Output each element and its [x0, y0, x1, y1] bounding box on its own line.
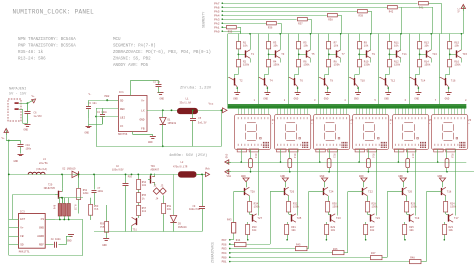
resistor R23	[443, 225, 447, 235]
wire T22 collector to R	[367, 196, 369, 202]
capacitor C9	[202, 174, 204, 206]
resistor R53	[90, 198, 92, 205]
resistor R55	[138, 190, 140, 194]
wires tube Z4 top pins	[356, 108, 358, 114]
hatched symbol tube Z1	[263, 142, 269, 148]
wire segment bus PA7	[222, 3, 417, 5]
svg-text:ZHASNI: SS, PB2: ZHASNI: SS, PB2	[113, 58, 151, 62]
resistor R25	[403, 225, 407, 235]
wire VCC to rail	[463, 11, 465, 34]
svg-text:SD: SD	[20, 244, 24, 247]
wire base node to T7	[329, 54, 336, 56]
pin numbers tube Z1 bottom	[238, 144, 239, 146]
svg-text:T20: T20	[407, 191, 412, 194]
diode D1	[162, 110, 164, 117]
resistor R27	[364, 225, 368, 235]
wire C1 to ground	[158, 87, 160, 93]
capacitor C1	[130, 80, 132, 95]
resistor R26	[405, 202, 409, 213]
transistor T8	[324, 78, 326, 85]
svg-text:MAX756: MAX756	[118, 133, 128, 136]
svg-text:T26: T26	[290, 191, 295, 194]
wire T26 collector to R	[288, 196, 290, 202]
svg-text:10k: 10k	[243, 44, 248, 48]
wire ground to T emitter column 4	[363, 182, 365, 187]
wire R24 to T17	[445, 212, 447, 214]
wire R41 to drop	[428, 3, 441, 5]
svg-text:C3 10n: C3 10n	[88, 102, 97, 105]
ground column 1	[234, 92, 240, 94]
resistor R52	[78, 174, 80, 188]
seven segment digit tube Z5	[404, 122, 413, 124]
resistor R7	[327, 42, 331, 49]
inductor L1	[178, 108, 198, 113]
wire R26 to T19	[406, 212, 408, 214]
wire segment output 5 to bus	[348, 34, 350, 105]
connector X1 power input	[8, 99, 21, 121]
wire riser digit 2	[270, 192, 272, 245]
svg-text:PA1: PA1	[214, 26, 220, 29]
wire R46 to riser	[344, 252, 348, 254]
wire T29 source to sense resistors	[62, 201, 64, 204]
transistor T13	[426, 50, 428, 57]
svg-text:T15: T15	[462, 53, 467, 56]
svg-text:10k: 10k	[252, 229, 257, 232]
resistor R15 tube Z2	[289, 149, 291, 159]
svg-text:R15: R15	[332, 154, 335, 159]
wire PB3 to R45	[230, 248, 296, 250]
svg-text:PB2: PB2	[105, 95, 110, 98]
svg-text:AGND: AGND	[37, 235, 44, 238]
wire base T22	[348, 191, 363, 193]
svg-text:T5: T5	[311, 53, 315, 56]
svg-text:GND: GND	[148, 141, 153, 144]
svg-text:NAPAJENI: NAPAJENI	[9, 88, 26, 92]
svg-text:T31: T31	[133, 229, 138, 232]
wire T29 gate to IC3	[12, 194, 55, 196]
wire column 5 rail to R9	[359, 34, 361, 42]
transistor T17	[448, 214, 450, 221]
wire segment bus PA5	[222, 11, 357, 13]
wire segment bus PA6	[222, 7, 387, 9]
wire base node to T15	[450, 54, 457, 56]
svg-text:GND: GND	[280, 175, 285, 178]
svg-text:10k: 10k	[334, 44, 339, 48]
svg-text:T18: T18	[447, 191, 452, 194]
svg-text:R16: R16	[372, 154, 375, 159]
svg-text:R42: R42	[389, 11, 394, 14]
wire column 2 rail to R3	[268, 34, 270, 42]
wire R3 to base node	[268, 49, 270, 60]
tube Z6 bottom pads	[434, 149, 444, 152]
ground net arrow left	[227, 162, 232, 164]
pin numbers tube Z5 top	[395, 117, 396, 119]
svg-text:R37: R37	[298, 23, 303, 26]
svg-text:MAX1771: MAX1771	[19, 251, 30, 254]
jumper J3	[160, 188, 167, 195]
resistor R28	[366, 202, 370, 213]
wire ground to T emitter column 2	[285, 182, 287, 187]
wire boost rail	[9, 174, 203, 176]
wire T25 to R31	[287, 222, 289, 225]
svg-text:0.22: 0.22	[74, 205, 77, 211]
wire tube Z2 pin to ground rail	[280, 149, 282, 162]
svg-text:10k: 10k	[303, 44, 308, 48]
wire R5 to base node	[298, 49, 300, 60]
svg-text:V+: V+	[20, 227, 24, 230]
wire IC1 feedback loop	[96, 108, 98, 146]
svg-text:T21: T21	[375, 217, 380, 220]
svg-text:NPN TRANZISTORY: BC546A: NPN TRANZISTORY: BC546A	[18, 38, 76, 42]
resistor R31	[285, 225, 289, 235]
wire R12 to T12 base	[389, 67, 391, 74]
wire T19 to R25	[404, 222, 406, 225]
svg-text:GND: GND	[160, 98, 165, 101]
resistor R58	[163, 195, 165, 203]
ground rail under tubes	[232, 162, 467, 164]
hatched symbol tube Z2	[302, 142, 308, 148]
wire T2 collector to segment net	[227, 77, 230, 79]
svg-text:2k2: 2k2	[142, 210, 147, 213]
ground R56	[103, 238, 109, 240]
wire T10 collector to segment net	[348, 77, 351, 79]
svg-text:150k: 150k	[254, 206, 261, 209]
wire R35 to drop	[237, 27, 241, 29]
svg-text:R47: R47	[371, 252, 376, 255]
resistor R8	[327, 60, 331, 67]
wire Vcc horizontal rail	[228, 33, 463, 35]
transistor T18	[441, 188, 443, 195]
svg-text:GND: GND	[263, 98, 268, 101]
wire base node to T13	[420, 54, 427, 56]
transistor T14	[415, 78, 417, 85]
wire T15 emitter to rail	[461, 34, 463, 50]
wire tube Z3 pin to ground rail	[319, 149, 321, 162]
power Vbb arrow output	[206, 172, 210, 176]
power VCC arrow output	[223, 108, 228, 113]
pin numbers tube Z1 top	[238, 117, 239, 119]
wire T7 collector down	[340, 58, 342, 62]
resistor R24	[444, 202, 448, 213]
tube Z5 bottom pads	[394, 149, 404, 152]
transistor T6	[294, 78, 296, 85]
wire R48 to riser	[421, 261, 426, 263]
svg-text:PA5: PA5	[214, 10, 220, 13]
svg-text:R46: R46	[333, 248, 338, 251]
wire T8 emitter to ground	[327, 87, 329, 93]
wire T21 to R27	[365, 222, 367, 225]
wire R23 down	[444, 235, 446, 240]
diode D3	[173, 174, 175, 215]
ground power input	[25, 124, 31, 126]
transistor T10	[354, 78, 356, 85]
wire T24 collector to R	[328, 196, 330, 202]
svg-text:150k: 150k	[364, 62, 371, 66]
svg-text:GND: GND	[398, 175, 403, 178]
wire tube Z5 cathode common down	[415, 149, 417, 216]
svg-text:10k: 10k	[370, 229, 375, 232]
transistor T25	[291, 214, 293, 221]
wire column 3 rail to R5	[298, 34, 300, 42]
transistor T2	[234, 78, 236, 85]
wire T18 collector to R	[445, 196, 447, 202]
wire R32 to T25	[288, 212, 290, 214]
svg-text:REF: REF	[120, 108, 125, 111]
svg-text:10k: 10k	[449, 229, 454, 232]
transistor T19	[409, 214, 411, 221]
svg-text:5V - 15V: 5V - 15V	[9, 93, 27, 97]
wire R28 to T21	[367, 212, 369, 214]
svg-text:C1 1u: C1 1u	[153, 80, 161, 83]
svg-text:T1: T1	[251, 53, 255, 56]
svg-text:SD: SD	[120, 100, 124, 103]
svg-text:ANODY AVR: PD5: ANODY AVR: PD5	[113, 64, 149, 68]
svg-text:LX: LX	[141, 110, 145, 113]
svg-text:1N5819: 1N5819	[178, 226, 187, 229]
svg-text:10k: 10k	[364, 44, 369, 48]
svg-text:100u/63V: 100u/63V	[112, 168, 124, 171]
wire T28 collector to R	[249, 196, 251, 202]
wire sense resistors bottom	[55, 219, 83, 221]
wire T15 collector down	[461, 58, 463, 62]
ground C10	[18, 154, 24, 156]
svg-text:100u/63V: 100u/63V	[189, 208, 201, 211]
svg-text:PG0: PG0	[128, 175, 133, 178]
wire drop R42 inner	[401, 7, 403, 34]
svg-text:GND: GND	[359, 175, 364, 178]
svg-text:GND: GND	[320, 175, 325, 178]
wire R11 to base node	[389, 49, 391, 60]
wire PB1 to R48	[230, 261, 410, 263]
transistor T21	[370, 214, 372, 221]
transistor T7	[336, 50, 338, 57]
resistor R6	[297, 60, 301, 67]
svg-text:10k: 10k	[424, 44, 429, 48]
transistor T3	[275, 50, 277, 57]
wire X1 pin2 down	[19, 109, 23, 111]
wire T12 collector to segment net	[378, 77, 381, 79]
wire R39 to drop	[368, 11, 372, 13]
wire segment bus PA4	[222, 15, 326, 17]
svg-text:T16: T16	[451, 79, 456, 82]
wire base T20	[387, 191, 402, 193]
wire R47 to riser	[382, 257, 387, 259]
svg-text:GND: GND	[102, 244, 107, 247]
resistor R39	[358, 10, 368, 13]
svg-text:PA0: PA0	[214, 30, 220, 33]
svg-text:470u/0.17R: 470u/0.17R	[173, 166, 188, 169]
transistor T12	[385, 78, 387, 85]
ground C3 C4	[88, 118, 90, 126]
resistor R41	[419, 2, 429, 5]
wire V+ down	[6, 135, 8, 141]
svg-text:150k: 150k	[450, 206, 457, 209]
resistor R10	[358, 60, 362, 67]
svg-text:SEGMENTY: PA(7-0): SEGMENTY: PA(7-0)	[113, 44, 156, 49]
wire R34 to T27	[249, 212, 251, 214]
wire R1 to base node	[238, 49, 240, 60]
wire drop R36	[281, 23, 283, 34]
seven segment digit tube Z2	[286, 122, 295, 124]
svg-text:GND: GND	[241, 175, 246, 178]
svg-text:GND: GND	[139, 119, 144, 122]
sense resistor R49	[58, 197, 83, 199]
svg-text:R18: R18	[450, 154, 453, 159]
resistor R23 tube Z6	[446, 149, 448, 159]
wire base T24	[309, 191, 324, 193]
wire ground to T emitter column 3	[324, 182, 326, 187]
wire R42 to drop	[398, 7, 433, 9]
wire base node to T5	[299, 54, 306, 56]
svg-text:L1: L1	[186, 98, 190, 101]
wire segment output 4 to bus	[318, 34, 320, 105]
wires tube Z1 top pins	[238, 108, 240, 114]
svg-text:R43: R43	[227, 219, 232, 222]
svg-text:R49: R49	[54, 204, 57, 209]
resistor R47	[371, 256, 383, 260]
svg-text:10k: 10k	[454, 44, 459, 48]
svg-text:GND: GND	[324, 98, 329, 101]
wire T6 collector to segment net	[287, 77, 290, 79]
wire LBI pin	[96, 116, 118, 118]
svg-text:PA7: PA7	[214, 2, 220, 5]
wire IC1 LX output	[147, 110, 178, 112]
wire R13 to base node	[419, 49, 421, 60]
wire R14 to T14 base	[419, 67, 421, 74]
wire V+ rail down to IC3	[8, 141, 10, 256]
svg-text:T10: T10	[360, 79, 365, 82]
wire T5 emitter to rail	[310, 34, 312, 50]
svg-text:GND: GND	[294, 98, 299, 101]
pin numbers tube Z3 top	[316, 117, 317, 119]
wires tube Z2 top pins	[277, 108, 279, 114]
transistor T26	[284, 188, 286, 195]
wire drop R37	[311, 19, 313, 34]
svg-text:IC3: IC3	[20, 210, 25, 213]
wire column 4 rail to R7	[328, 34, 330, 42]
transistor T24	[323, 188, 325, 195]
wire riser digit 3	[308, 192, 310, 249]
ground column 7	[415, 92, 421, 94]
capacitor C5	[192, 110, 194, 118]
power V+ arrow	[28, 100, 34, 103]
svg-text:PB1: PB1	[222, 261, 227, 264]
svg-text:GND: GND	[39, 227, 44, 230]
numitron tube Z4	[353, 115, 389, 150]
wire riser digit 5	[387, 192, 389, 258]
svg-text:PB3: PB3	[222, 248, 227, 251]
svg-text:IRLR2705: IRLR2705	[44, 187, 56, 190]
ground column 8	[446, 92, 452, 94]
wire PD7 line	[230, 239, 234, 241]
wire tube Z5 pin to ground rail	[398, 149, 400, 162]
wire PB2 to IC1	[107, 100, 118, 102]
svg-text:100n: 100n	[98, 190, 104, 193]
wire T16 collector to segment net	[438, 77, 441, 79]
wire T3 emitter to rail	[280, 34, 282, 50]
ground column 4	[325, 92, 331, 94]
svg-text:T17: T17	[454, 217, 459, 220]
wire R29 down	[326, 235, 328, 240]
resistor R44	[235, 243, 247, 247]
transistor T1	[245, 50, 247, 57]
wire base T28	[234, 191, 245, 193]
power VCC arrow top right	[463, 7, 465, 12]
wire R36 to drop	[277, 23, 281, 25]
svg-text:R13: R13	[254, 154, 257, 159]
svg-text:AOD407: AOD407	[151, 168, 160, 171]
wire R31 down	[287, 235, 289, 240]
resistor R38	[328, 14, 338, 17]
resistor R1	[237, 42, 241, 49]
svg-text:T28: T28	[250, 191, 255, 194]
svg-text:150k: 150k	[372, 206, 379, 209]
svg-text:V-: V-	[89, 93, 93, 96]
svg-text:FB: FB	[20, 235, 24, 238]
svg-text:PA3: PA3	[214, 18, 220, 21]
wire tube Z1 cathode common down	[258, 149, 260, 216]
svg-text:R38: R38	[328, 19, 333, 22]
resistor R32	[287, 202, 291, 213]
resistor R54	[138, 174, 140, 179]
wires tube Z6 top pins	[434, 108, 436, 114]
svg-text:R35-48: 1k: R35-48: 1k	[18, 50, 44, 55]
svg-text:IC1: IC1	[119, 91, 124, 94]
svg-text:150k: 150k	[394, 62, 401, 66]
transistor T31	[136, 218, 138, 225]
wire segment output 8 to bus	[439, 34, 441, 105]
seven segment digit tube Z6	[444, 122, 453, 124]
wire R15 to base node	[449, 49, 451, 60]
wire tube Z4 cathode common down	[376, 149, 378, 216]
svg-text:150k: 150k	[454, 62, 461, 66]
wires tube Z3 top pins	[316, 108, 318, 114]
svg-text:1u/16V: 1u/16V	[34, 115, 43, 118]
svg-text:PD7: PD7	[222, 239, 227, 242]
resistor R13	[418, 42, 422, 49]
tube Z2 bottom pads	[277, 149, 287, 152]
pin numbers tube Z4 top	[356, 117, 357, 119]
wire tube Z1 pin to ground rail	[241, 149, 243, 162]
svg-text:LBI: LBI	[120, 117, 125, 120]
transistor T27	[252, 214, 254, 221]
ground C1	[158, 92, 164, 94]
pin numbers tube Z2 bottom	[277, 144, 278, 146]
wire T14 emitter to ground	[418, 87, 420, 93]
ground column 5	[355, 92, 361, 94]
wire R38 to drop	[338, 15, 342, 17]
resistor R19 tube Z4	[368, 149, 370, 159]
wire CS to IC3	[45, 219, 55, 221]
svg-text:GND: GND	[226, 153, 229, 158]
notes block MCU pin mapping	[113, 38, 211, 68]
wire T17 to R23	[444, 222, 446, 225]
svg-text:T11: T11	[402, 53, 407, 56]
wire R27 down	[365, 235, 367, 240]
svg-text:T3: T3	[281, 53, 285, 56]
svg-text:SEGMENTY: SEGMENTY	[203, 12, 207, 28]
resistor R33	[246, 225, 250, 235]
svg-text:GND: GND	[85, 132, 90, 135]
svg-text:100n: 100n	[26, 147, 32, 150]
wire T20 collector to R	[406, 196, 408, 202]
svg-text:T8: T8	[330, 79, 334, 82]
wire segment bus PA3	[222, 19, 296, 21]
wire R7 to base node	[328, 49, 330, 60]
resistor R17 tube Z3	[329, 149, 331, 159]
resistor R42	[388, 6, 398, 9]
svg-text:PA2: PA2	[214, 22, 220, 25]
